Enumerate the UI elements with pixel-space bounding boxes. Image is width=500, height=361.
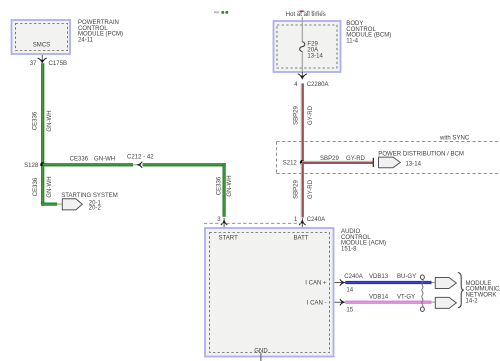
svg-text:GY-RD: GY-RD [346, 156, 366, 162]
curly brace [458, 273, 464, 308]
label Hot at all times with marker [286, 11, 326, 19]
splice S128 [40, 162, 45, 167]
svg-text:CE336: CE336 [33, 177, 39, 196]
pin 3 connector arrow into START [221, 218, 228, 228]
wire CE336 GN-WH from S128 to starting system [41, 166, 57, 206]
svg-text:13-14: 13-14 [307, 53, 323, 59]
svg-text:CE336: CE336 [70, 157, 89, 163]
svg-text:BATT: BATT [294, 236, 309, 242]
svg-text:CE336: CE336 [216, 176, 222, 195]
svg-text:C240A: C240A [344, 274, 363, 280]
svg-text:SBP29: SBP29 [294, 179, 300, 198]
off-page connector POWER DISTRIBUTION / BCM [373, 157, 401, 168]
with SYNC dashed group box [277, 142, 500, 174]
svg-text:Hot at all times: Hot at all times [286, 12, 326, 18]
svg-text:11-4: 11-4 [346, 39, 358, 45]
svg-text:S128: S128 [24, 163, 39, 169]
svg-text:SBP29: SBP29 [320, 156, 339, 162]
label BODY CONTROL MODULE (BCM) 11-4 [346, 21, 391, 44]
wire SBP29 GY-RD horizontal S212 to power distribution [302, 161, 373, 164]
connector C212 - 42 [133, 162, 142, 168]
connector C2280A symbol [298, 72, 307, 79]
svg-text:GY-RD: GY-RD [308, 179, 314, 199]
body control module BCM box [274, 21, 341, 72]
svg-text:CE336: CE336 [33, 111, 39, 130]
svg-text:START: START [219, 236, 239, 242]
dashed with SYNC segment above ACM [204, 222, 302, 224]
svg-text:4: 4 [294, 82, 298, 88]
svg-text:GN-WH: GN-WH [47, 110, 53, 131]
page marks top [214, 11, 228, 14]
fuse F29 20A [300, 17, 305, 73]
wire VDB13 BU-GY blue [345, 281, 431, 284]
label F29 20A 13-14 [307, 41, 323, 59]
label MODULE COMMUNICATION NETWORK 14-2 [466, 281, 500, 305]
off-page connector STARTING SYSTEM [57, 199, 82, 210]
svg-text:SMCS: SMCS [33, 43, 50, 49]
svg-text:C212 - 42: C212 - 42 [127, 155, 154, 161]
wire SBP29 GY-RD vertical BCM to S212 [301, 83, 304, 163]
svg-text:14: 14 [346, 288, 353, 294]
svg-text:13-14: 13-14 [406, 161, 422, 167]
pin 1 connector arrow into BATT [299, 218, 306, 228]
svg-text:BU-GY: BU-GY [397, 274, 416, 280]
off-page connector arrow CAN high [432, 278, 457, 289]
svg-text:15: 15 [346, 307, 353, 313]
label POWERTRAIN CONTROL MODULE (PCM) 24-11 [78, 20, 123, 43]
svg-text:S212: S212 [283, 161, 298, 167]
svg-text:1: 1 [294, 217, 298, 223]
svg-text:GN-WH: GN-WH [47, 176, 53, 197]
wire CE336 GN-WH vertical from PCM to S128 [41, 63, 44, 166]
svg-text:C2280A: C2280A [307, 82, 330, 88]
svg-text:151-8: 151-8 [341, 247, 357, 253]
svg-text:STARTING SYSTEM: STARTING SYSTEM [61, 193, 118, 199]
svg-text:SBP29: SBP29 [294, 105, 300, 124]
wire CE336 GN-WH horizontal S128 to C212 [43, 163, 134, 166]
svg-text:GN-WH: GN-WH [227, 175, 233, 196]
svg-text:VDB14: VDB14 [369, 294, 389, 300]
twisted pair symbol [421, 275, 425, 312]
svg-text:POWER DISTRIBUTION / BCM: POWER DISTRIBUTION / BCM [378, 151, 464, 157]
splice S212 [300, 160, 305, 165]
gnd stub line [260, 353, 262, 361]
svg-text:3: 3 [217, 217, 221, 223]
svg-text:24-11: 24-11 [78, 37, 94, 43]
off-page connector arrow CAN low [432, 297, 457, 308]
svg-text:14-2: 14-2 [466, 298, 479, 304]
svg-text:C175B: C175B [49, 61, 68, 67]
svg-text:with SYNC: with SYNC [439, 136, 470, 142]
pin 15 connector arrow I CAN - [335, 299, 345, 305]
svg-text:I CAN +: I CAN + [305, 281, 327, 287]
svg-text:GY-RD: GY-RD [308, 105, 314, 125]
svg-text:20-2: 20-2 [89, 206, 102, 212]
svg-text:37: 37 [30, 61, 37, 67]
wire VDB14 VT-GY violet [345, 301, 431, 304]
pin 14 connector arrow I CAN + [335, 279, 345, 285]
wire SBP29 GY-RD vertical S212 to ACM BATT [301, 163, 304, 218]
label AUDIO CONTROL MODULE (ACM) 151-8 [341, 229, 386, 252]
svg-text:C240A: C240A [307, 217, 326, 223]
svg-text:GN-WH: GN-WH [94, 157, 115, 163]
powertrain control module PCM box [12, 20, 71, 54]
wire CE336 GN-WH from C212 to START pin [143, 163, 226, 217]
audio control module ACM box [205, 228, 334, 357]
svg-text:VDB13: VDB13 [369, 274, 389, 280]
svg-text:I CAN -: I CAN - [307, 300, 327, 306]
connector C175B symbol [38, 55, 47, 63]
svg-text:VT-GY: VT-GY [397, 294, 415, 300]
